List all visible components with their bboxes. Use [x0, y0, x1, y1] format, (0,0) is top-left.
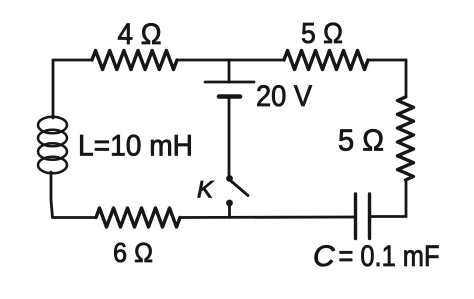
resistor R1 4ohm (top-left) [92, 51, 177, 70]
wire top-right segment [368, 59, 406, 62]
svg-text:6 Ω: 6 Ω [113, 237, 153, 268]
switch K blade (open) [231, 181, 248, 196]
capacitor C1 left plate [354, 194, 357, 239]
svg-text:L=10 mH: L=10 mH [78, 129, 193, 162]
wire battery to switch [228, 97, 231, 176]
wire left side lower [51, 172, 53, 218]
capacitor C1 right plate [368, 194, 371, 239]
resistor R3 5ohm (right vertical) [398, 97, 414, 180]
inductor L1 coil [38, 117, 67, 174]
wire right side upper [405, 60, 408, 97]
wire left side upper [52, 60, 55, 118]
resistor R4 6ohm (bottom-left) [96, 208, 180, 227]
svg-text:4 Ω: 4 Ω [118, 18, 162, 51]
wire bottom-left segment [53, 216, 96, 219]
wire battery branch top stub [228, 60, 231, 82]
svg-text:C: C [313, 240, 335, 273]
battery B1 negative plate (short) [219, 94, 240, 99]
wire right side lower [405, 180, 408, 217]
wire switch bottom stub [228, 205, 231, 218]
battery B1 positive plate (long) [205, 81, 254, 84]
switch K bottom contact dot [226, 200, 233, 207]
svg-text:5 Ω: 5 Ω [338, 122, 384, 157]
wire top-left segment [53, 59, 92, 62]
wire bottom-middle segment [180, 216, 356, 219]
wire top-middle segment [177, 59, 284, 62]
svg-text:= 0.1 mF: = 0.1 mF [339, 240, 440, 273]
switch K top contact dot [226, 175, 233, 182]
svg-text:20 V: 20 V [256, 80, 312, 113]
resistor R2 5ohm (top-right) [284, 51, 368, 70]
svg-text:K: K [197, 177, 214, 204]
wire bottom-right segment [370, 215, 407, 218]
svg-text:5 Ω: 5 Ω [301, 18, 343, 50]
